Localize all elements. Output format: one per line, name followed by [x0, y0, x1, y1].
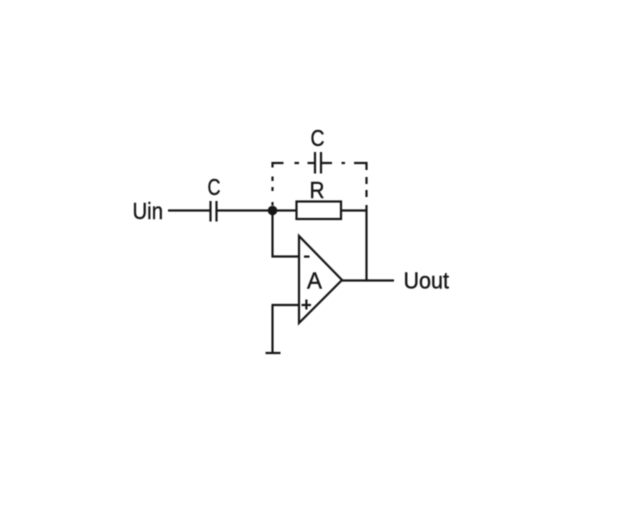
wire Uin to C1 — [168, 209, 210, 211]
dashed wire top edge segments — [272, 162, 284, 164]
capacitor C1 plate left — [209, 201, 211, 222]
wire C1 to node A — [218, 209, 298, 211]
op-amp A triangle — [299, 236, 342, 323]
wire node A to inverting input — [271, 211, 273, 258]
resistor R body — [297, 202, 342, 220]
svg-text:C: C — [311, 125, 325, 151]
svg-text:Uin: Uin — [133, 198, 164, 224]
capacitor C2 plate right — [320, 152, 322, 174]
wire R to feedback node — [341, 209, 367, 211]
node A junction dot — [268, 206, 278, 216]
svg-text:R: R — [310, 177, 325, 203]
op-amp minus sign — [304, 256, 310, 258]
wire output — [342, 279, 395, 281]
svg-text:Uout: Uout — [404, 268, 450, 294]
wire feedback vertical — [365, 205, 367, 281]
wire non-inverting input — [272, 304, 300, 306]
svg-text:A: A — [307, 268, 322, 294]
capacitor C1 plate right — [215, 201, 217, 222]
dashed wire right edge segments — [365, 162, 367, 170]
dashed wire left edge segments — [271, 162, 273, 168]
svg-text:C: C — [208, 174, 221, 200]
capacitor C2 plate left — [314, 152, 316, 174]
wire to ground — [271, 305, 273, 353]
op-amp plus sign — [302, 304, 312, 306]
ground — [266, 352, 281, 354]
